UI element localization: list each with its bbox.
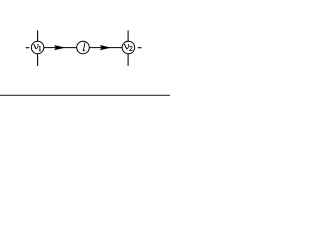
wire v1 to i (44, 47, 77, 49)
label v2 (italic v) (124, 44, 128, 49)
dash left of v1 (26, 47, 30, 49)
bottom rule (0, 94, 170, 96)
label v1 (italic v) (34, 44, 38, 49)
node i (77, 41, 90, 54)
dash right of v2 (138, 47, 142, 49)
v2 bottom lead (127, 54, 129, 66)
v1 top lead (37, 30, 39, 41)
node v2 (122, 41, 135, 54)
v2 top lead (127, 30, 129, 41)
label v2 subscript 2 (130, 46, 133, 50)
arrowhead on wire i-v2 (100, 45, 111, 50)
v1 bottom lead (37, 54, 39, 66)
arrowhead on wire v1-i (54, 45, 65, 50)
label v1 subscript 1 (39, 46, 41, 51)
node v1 (31, 41, 44, 54)
wire i to v2 (89, 47, 122, 49)
label i (italic l) (83, 42, 85, 51)
